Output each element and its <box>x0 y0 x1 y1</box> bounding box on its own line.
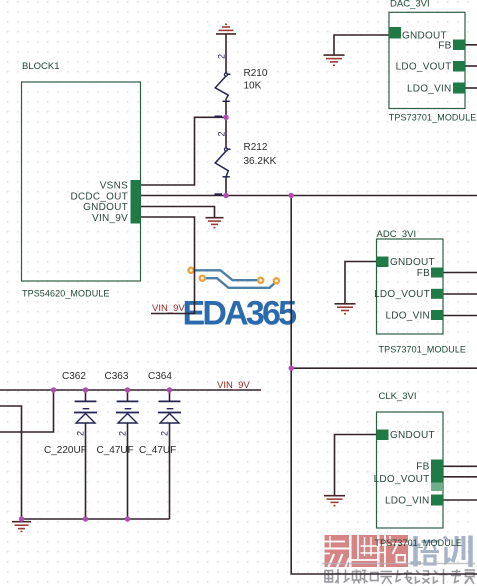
node C363 bottom <box>125 516 130 521</box>
wire bottom rail <box>22 518 170 520</box>
pin FB (DAC) <box>453 40 465 51</box>
resistor R210 <box>215 73 231 117</box>
wire DAC FB <box>465 44 477 46</box>
pin GNDOUT (DAC) <box>389 27 401 39</box>
node C362 top <box>83 387 88 392</box>
svg-text:DCDC_OUT: DCDC_OUT <box>70 192 128 203</box>
char 线 <box>396 570 413 584</box>
watermark 易迪拓培训 <box>325 535 471 567</box>
node branch y367 <box>289 366 294 371</box>
wire DAC LDO_VIN <box>465 87 477 89</box>
svg-text:2: 2 <box>217 54 227 59</box>
wire R210 top lead from ground <box>225 34 227 74</box>
char 易 (red) <box>325 535 350 567</box>
svg-text:GNDOUT: GNDOUT <box>390 257 435 268</box>
svg-text:LDO_VOUT: LDO_VOUT <box>374 474 430 485</box>
svg-text:10K: 10K <box>244 81 262 92</box>
svg-text:GNDOUT: GNDOUT <box>83 202 128 213</box>
svg-text:TPS73701_MODULE: TPS73701_MODULE <box>375 538 463 548</box>
wire vertical branch x=291 <box>291 196 477 575</box>
wire GNDOUT of BLOCK1 to ground <box>141 207 215 218</box>
svg-text:VIN_9V: VIN_9V <box>92 213 128 224</box>
svg-text:VIN_9V: VIN_9V <box>217 380 250 391</box>
pin LDO_VIN (CLK) <box>431 495 443 506</box>
wire ADC GNDOUT to ground <box>345 262 376 304</box>
wire CLK GNDOUT to ground <box>335 435 377 496</box>
wire DCDC_OUT net across <box>141 195 477 197</box>
svg-text:TPS73701_MODULE: TPS73701_MODULE <box>379 345 467 355</box>
pin FB + LDO_VOUT (CLK) <box>431 460 443 483</box>
wire CLK LDO_VOUT <box>443 476 477 478</box>
svg-text:C_47UF: C_47UF <box>139 445 176 456</box>
svg-text:C_47UF: C_47UF <box>97 445 134 456</box>
wire branch to left edge <box>0 390 54 432</box>
svg-text:GNDOUT: GNDOUT <box>390 430 435 441</box>
pin GNDOUT (CLK) <box>377 430 389 441</box>
char 迪 (red) <box>352 535 378 567</box>
pin LDO_VOUT (DAC) <box>453 61 465 72</box>
watermark 射频和天线设计专家 <box>325 569 475 584</box>
char 训 (blue) <box>444 536 471 568</box>
wire CLK FB <box>443 465 477 467</box>
pin GNDOUT (ADC) <box>377 257 389 268</box>
svg-text:LDO_VOUT: LDO_VOUT <box>396 62 452 73</box>
pin LDO_VOUT (ADC) <box>431 289 443 299</box>
char 家 <box>465 570 476 584</box>
svg-text:2: 2 <box>76 431 86 436</box>
node C362 bottom <box>83 516 88 521</box>
wire VIN_9V cap bank top <box>0 389 261 391</box>
char 拓 (red) <box>380 535 409 567</box>
svg-text:LDO_VIN: LDO_VIN <box>385 310 430 321</box>
svg-text:DAC_3VI: DAC_3VI <box>390 0 430 10</box>
wire ADC LDO_VOUT <box>443 293 477 295</box>
node C364 top <box>167 387 172 392</box>
node C363 top <box>125 387 130 392</box>
svg-text:2: 2 <box>118 431 128 436</box>
pin LDO_VIN (DAC) <box>453 83 465 94</box>
wire left edge to bottom rail <box>0 406 22 519</box>
ground mid (BLOCK1 GNDOUT) <box>206 218 224 228</box>
ground bottom-left <box>12 522 31 532</box>
svg-text:2: 2 <box>217 131 227 136</box>
wire branch right y=367.5 <box>291 367 477 369</box>
resistor R212 <box>215 148 231 194</box>
char 天 <box>381 572 393 585</box>
svg-text:C_220UF: C_220UF <box>44 445 87 456</box>
char 培 (blue) <box>411 536 440 567</box>
pin FB (ADC) <box>431 268 443 278</box>
module ADC_3VI <box>377 239 444 334</box>
module DAC_3VI <box>389 12 465 108</box>
pin LDO_VIN (ADC) <box>431 310 443 320</box>
char 和 <box>362 570 379 584</box>
char 射 <box>325 569 341 584</box>
wire ADC LDO_VIN <box>443 315 477 317</box>
svg-text:ADC_3VI: ADC_3VI <box>377 229 417 240</box>
wire CLK LDO_VIN <box>443 499 477 501</box>
capacitor C363 <box>116 401 139 423</box>
char 设 <box>416 571 430 584</box>
svg-text:VSNS: VSNS <box>100 181 128 192</box>
wire R210 bottom lead <box>225 99 227 118</box>
svg-text:BLOCK1: BLOCK1 <box>22 61 60 72</box>
wire DAC GNDOUT to ground <box>334 35 389 55</box>
svg-text:LDO_VIN: LDO_VIN <box>407 84 452 95</box>
block U-BLOCK1 TPS54620 <box>22 82 141 281</box>
node bottom rail left <box>19 516 24 521</box>
svg-text:R210: R210 <box>244 68 268 79</box>
svg-text:LDO_VOUT: LDO_VOUT <box>374 289 430 300</box>
svg-text:TPS73701_MODULE: TPS73701_MODULE <box>389 113 477 123</box>
wire VIN_9V from BLOCK1 down to label <box>141 217 195 314</box>
svg-text:2: 2 <box>160 431 170 436</box>
svg-text:TPS54620_MODULE: TPS54620_MODULE <box>22 289 110 299</box>
wire VSNS from BLOCK1 to R divider midpoint <box>141 117 227 185</box>
char 计 <box>434 569 448 584</box>
svg-text:FB: FB <box>417 268 430 279</box>
capacitor C364 <box>158 401 181 423</box>
svg-text:C362: C362 <box>62 371 86 382</box>
wire R212 bottom lead <box>225 176 227 196</box>
svg-text:EDA365: EDA365 <box>183 295 297 333</box>
ground DAC <box>324 55 345 65</box>
svg-text:LDO_VIN: LDO_VIN <box>385 496 430 507</box>
svg-text:C364: C364 <box>148 371 172 382</box>
svg-text:C363: C363 <box>105 371 129 382</box>
char 专 <box>451 570 461 583</box>
svg-text:FB: FB <box>438 40 451 51</box>
watermark underline <box>322 563 475 565</box>
wire C363 leads <box>127 390 129 519</box>
ground top (inverted) <box>216 24 236 34</box>
wire C362 leads <box>85 390 87 519</box>
wire C364 leads <box>169 390 171 519</box>
svg-text:R212: R212 <box>244 142 268 153</box>
capacitor C362 <box>74 401 97 423</box>
svg-text:FB: FB <box>416 462 429 473</box>
char 频 <box>343 570 361 584</box>
ground ADC <box>335 304 356 314</box>
node top rail branch <box>51 387 56 392</box>
node VSNS/divider <box>223 115 228 120</box>
node DCDC/branch <box>289 193 294 198</box>
svg-text:36.2KK: 36.2KK <box>244 156 277 167</box>
EDA365 logo pads <box>188 268 279 284</box>
svg-text:VIN_9V: VIN_9V <box>152 303 185 314</box>
module CLK_3VI <box>377 412 444 528</box>
wire DAC LDO_VOUT <box>465 65 477 67</box>
EDA365 logo traces <box>191 270 276 288</box>
wire R212 top lead <box>225 117 227 148</box>
ground CLK <box>324 496 345 506</box>
wire ADC FB <box>443 272 477 274</box>
svg-text:CLK_3VI: CLK_3VI <box>379 391 417 402</box>
node R212/DCDC <box>223 193 228 198</box>
pin block of BLOCK1 <box>131 180 141 224</box>
